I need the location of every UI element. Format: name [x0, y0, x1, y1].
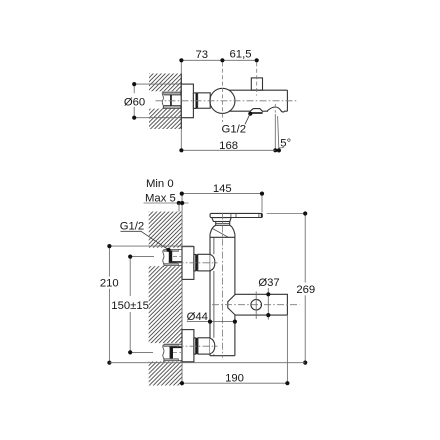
svg-text:G1/2: G1/2: [222, 123, 247, 135]
svg-text:Min 0: Min 0: [146, 178, 174, 190]
svg-text:5°: 5°: [280, 137, 291, 149]
svg-text:G1/2: G1/2: [120, 220, 145, 232]
svg-text:150±15: 150±15: [111, 300, 149, 312]
svg-text:Ø44: Ø44: [187, 311, 208, 323]
svg-text:210: 210: [100, 278, 119, 290]
svg-text:61,5: 61,5: [230, 49, 252, 61]
svg-text:Ø37: Ø37: [258, 277, 279, 289]
svg-text:168: 168: [219, 140, 238, 152]
svg-text:190: 190: [225, 372, 244, 384]
svg-text:73: 73: [196, 49, 209, 61]
svg-text:145: 145: [213, 183, 232, 195]
svg-text:269: 269: [296, 284, 315, 296]
svg-text:Ø60: Ø60: [124, 96, 145, 108]
